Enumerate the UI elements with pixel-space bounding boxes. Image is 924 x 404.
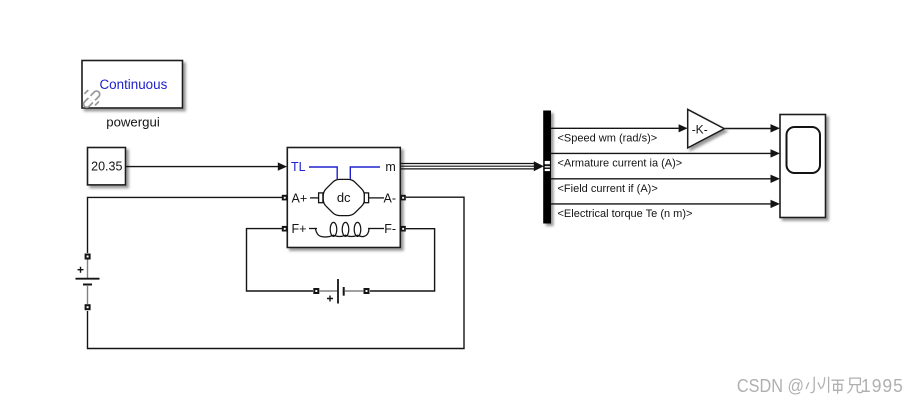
svg-text:-K-: -K- (692, 123, 708, 137)
svg-text:<Field current if (A)>: <Field current if (A)> (558, 183, 658, 195)
svg-text:F+: F+ (292, 222, 307, 236)
svg-text:Continuous: Continuous (100, 77, 168, 92)
svg-text:<Speed wm (rad/s)>: <Speed wm (rad/s)> (558, 133, 658, 145)
svg-text:CSDN @: CSDN @ (737, 375, 804, 396)
svg-text:A+: A+ (292, 192, 308, 206)
svg-text:F-: F- (384, 222, 396, 236)
svg-text:dc: dc (337, 190, 351, 205)
svg-text:<Armature current ia (A)>: <Armature current ia (A)> (558, 158, 683, 170)
svg-text:<Electrical torque Te (n m)>: <Electrical torque Te (n m)> (558, 208, 693, 220)
svg-text:TL: TL (291, 160, 306, 174)
svg-text:1995: 1995 (861, 375, 904, 395)
svg-text:A-: A- (384, 192, 397, 206)
svg-text:powergui: powergui (106, 114, 160, 129)
svg-text:m: m (385, 160, 395, 174)
svg-text:20.35: 20.35 (91, 159, 122, 173)
